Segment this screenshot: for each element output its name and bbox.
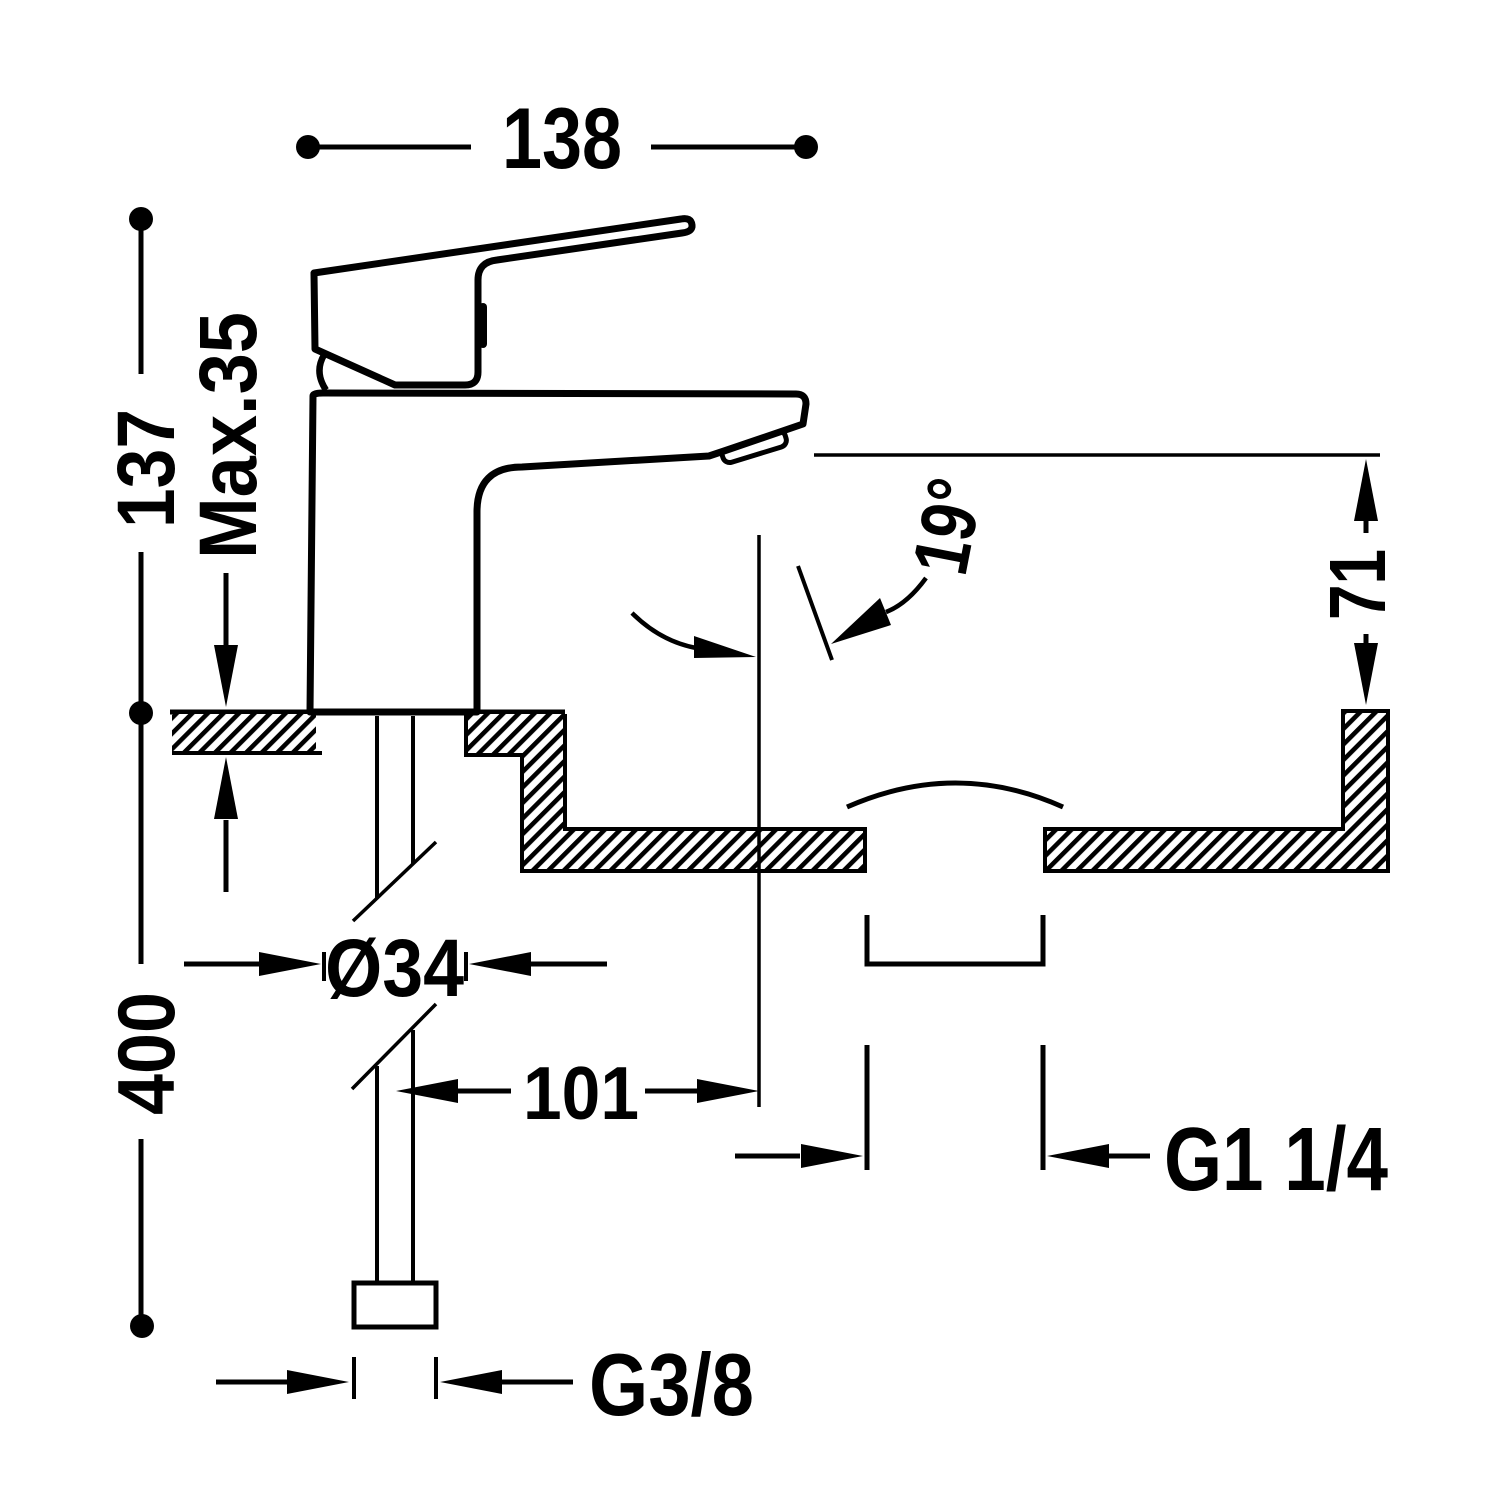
dimension G3/8 left arrow	[216, 1380, 288, 1385]
dimension O34 right arrow	[469, 952, 531, 976]
pipe break slash upper	[353, 842, 436, 921]
O34 right tick	[464, 952, 468, 981]
basin bottom arc	[847, 783, 1063, 807]
dimension 138 left line	[318, 145, 471, 150]
supply pipe upper left line	[375, 716, 379, 898]
dimension 400 line lower segment	[139, 1139, 144, 1316]
supply pipe upper right line	[411, 716, 415, 864]
dimension G1 1/4 left arrow	[735, 1154, 800, 1159]
dimension G1 1/4 right arrow	[1047, 1144, 1109, 1168]
counter section left (hatched)	[172, 714, 316, 753]
svg-text:G1 1/4: G1 1/4	[1164, 1110, 1388, 1210]
dimension 71 lower arrow	[1364, 634, 1369, 645]
stream swivel arc arrow	[632, 613, 696, 648]
svg-text:138: 138	[502, 91, 622, 187]
arrow up to counter underside	[224, 820, 229, 892]
countertop surface line	[170, 710, 565, 715]
left dimension middle dot	[129, 701, 153, 725]
Max.35 arrow down to countertop	[224, 573, 229, 650]
pipe break slash lower	[352, 1004, 436, 1089]
handle dome arc	[319, 355, 326, 390]
dimension 138 right line	[651, 145, 796, 150]
counter/basin step section right of faucet (hatched)	[466, 714, 865, 871]
dimension 137 line lower segment	[139, 552, 144, 703]
19 degree arc arrow	[886, 578, 926, 612]
svg-text:137: 137	[101, 409, 192, 528]
G3/8 right tick	[434, 1357, 438, 1399]
spout stream centerline	[757, 535, 761, 1107]
faucet handle lever	[314, 219, 692, 385]
G3/8 left tick	[352, 1357, 356, 1399]
O34 left tick	[322, 952, 326, 981]
supply pipe lower right line	[411, 1030, 415, 1283]
dimension 400 line upper segment	[139, 723, 144, 964]
handle joint notch	[479, 307, 487, 344]
svg-text:Ø34: Ø34	[325, 923, 464, 1014]
dimension 71 upper arrow	[1354, 459, 1378, 521]
basin section right side L-shape (hatched)	[1045, 711, 1388, 871]
19 degree tangent line	[798, 566, 832, 660]
svg-text:71: 71	[1313, 549, 1402, 620]
faucet body	[310, 393, 806, 712]
supply pipe lower left line	[375, 1066, 379, 1283]
dimension 101 right arrow	[645, 1089, 697, 1094]
left dimension bottom dot	[130, 1314, 154, 1338]
svg-text:19°: 19°	[895, 471, 1000, 581]
faucet aerator outlet	[720, 429, 788, 465]
dimension 101 left arrow	[396, 1079, 458, 1103]
drain tailpiece U	[867, 915, 1043, 964]
svg-text:400: 400	[102, 992, 192, 1115]
dimension O34 left arrow	[184, 962, 262, 967]
svg-text:G3/8: G3/8	[589, 1335, 754, 1434]
left dimension top dot	[129, 207, 153, 231]
svg-text:101: 101	[523, 1051, 639, 1135]
drain pipe left tick	[865, 1045, 870, 1170]
spout reference line	[814, 453, 1380, 457]
dimension 137 line upper segment	[139, 229, 144, 374]
supply hose nut	[354, 1283, 436, 1327]
drain pipe right tick	[1041, 1045, 1046, 1170]
dimension 138 left dot	[296, 135, 320, 159]
dimension G3/8 right arrow	[440, 1370, 502, 1394]
svg-text:Max.35: Max.35	[183, 312, 274, 559]
dimension 138 right dot	[794, 135, 818, 159]
